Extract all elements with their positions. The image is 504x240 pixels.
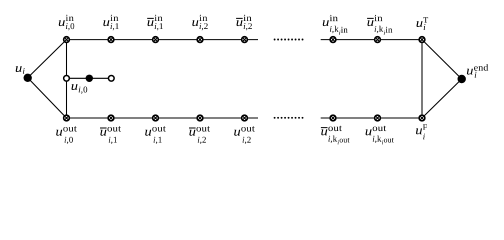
label u_i,0^out [56,126,77,144]
node u_i,2^out [242,115,248,121]
node u_i^F [419,115,425,121]
node ubar_i,ki^in [375,37,381,43]
label u_i^end [467,64,488,78]
node gadget right (open) [108,75,114,81]
node u_i,0^in [64,37,70,43]
node ubar_i,ki^out [330,115,336,121]
label u_i,1^in [103,15,118,31]
node gadget middle (filled) [86,75,93,82]
node u_i,1^in [108,37,114,43]
node u_i,1^out [153,115,159,121]
node ubar_i,1^out [108,115,114,121]
label ubar_i,ki^in [367,15,392,35]
wire: top rail right segment [321,39,422,41]
ellipsis dots bottom [274,117,304,119]
label u_i,0^in [59,15,74,31]
node u_i,ki^out [375,115,381,121]
node u_i,2^in [197,37,203,43]
node ubar_i,2^in [242,37,248,43]
node u_i,0 (open) [64,75,70,81]
label u_i^F [416,124,427,139]
wire: u_i to u_i,0^in [28,40,67,78]
node u_i (start, filled) [24,74,32,82]
label u_i,ki^out [366,126,394,145]
wire: top rail left segment [67,39,259,41]
node ubar_i,1^in [153,37,159,43]
wire: u_i^F to u_i^end [422,79,462,118]
wire: bottom rail left segment [67,117,259,119]
ellipsis dots top [274,39,304,41]
node u_i^T [419,37,425,43]
label u_i,0 [72,84,88,94]
node u_i,ki^in [330,37,336,43]
label u_i,2^out [234,126,255,144]
label ubar_i,2^in [236,15,252,31]
wire: left vertical (u_i,0^in to u_i,0^out) [66,40,68,118]
wire: right vertical (u_i^T to u_i^F) [421,40,423,118]
label ubar_i,2^out [189,126,210,144]
label u_i,1^out [145,126,166,144]
wire: gadget horizontal chain at u_i,0 [67,77,112,79]
node ubar_i,2^out [197,115,203,121]
wire: u_i^T to u_i^end [422,40,462,79]
label u_i [16,66,25,74]
wire: u_i to u_i,0^out [28,78,67,118]
node u_i^end (filled) [458,75,466,83]
label u_i,2^in [192,15,207,31]
label ubar_i,1^in [147,15,163,31]
label ubar_i,1^out [100,126,121,144]
label u_i,ki^in [323,15,348,35]
node u_i,0^out [64,115,70,121]
wire: bottom rail right segment [321,117,422,119]
label u_i^T [417,17,429,30]
label ubar_i,ki^out [321,126,350,145]
